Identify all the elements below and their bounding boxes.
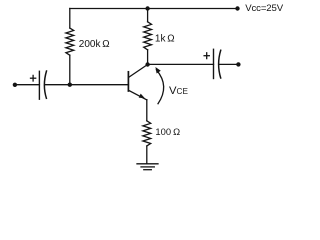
transistor Q1 base bar <box>127 72 129 91</box>
capacitor C2 curved plate <box>219 50 221 78</box>
node rail junction dot <box>145 6 149 10</box>
wire middle branch top <box>147 9 149 22</box>
wire top rail Vcc <box>70 8 238 10</box>
svg-text:200kΩ: 200kΩ <box>79 39 110 50</box>
svg-text:100Ω: 100Ω <box>155 126 180 137</box>
plus sign output <box>204 55 209 57</box>
plus sign input <box>31 77 36 79</box>
wire emitter vertical <box>146 100 148 121</box>
wire input lead <box>15 84 40 86</box>
wire base <box>45 84 129 86</box>
node Vcc dot <box>235 6 239 10</box>
node output terminal dot <box>236 62 240 66</box>
svg-text:1kΩ: 1kΩ <box>155 33 175 44</box>
transistor Q1 emitter arrowhead <box>139 94 145 99</box>
svg-text:Vcc=25V: Vcc=25V <box>245 3 284 14</box>
arrow VCE arrowhead <box>155 67 160 74</box>
resistor R2 1k zigzag <box>144 22 152 50</box>
wire to ground <box>146 146 148 164</box>
ground <box>137 163 158 165</box>
node collector junction dot <box>145 62 149 66</box>
wire output <box>148 63 214 65</box>
wire output lead <box>219 63 237 65</box>
transistor Q1 emitter line <box>129 90 147 100</box>
transistor Q1 collector line <box>129 65 148 78</box>
capacitor C1 curved plate <box>44 71 46 98</box>
capacitor C2 straight plate <box>213 49 215 78</box>
node base junction dot <box>68 83 72 87</box>
capacitor C1 straight plate <box>38 71 40 99</box>
wire left branch top <box>69 9 71 29</box>
wire middle branch bottom <box>147 50 149 65</box>
resistor R3 100 zigzag <box>143 121 151 146</box>
node input terminal dot <box>13 83 17 87</box>
resistor R1 200k zigzag <box>66 28 74 55</box>
arrow VCE arc <box>156 70 163 104</box>
svg-text:VCE: VCE <box>169 85 188 97</box>
wire left branch bottom <box>69 55 71 84</box>
